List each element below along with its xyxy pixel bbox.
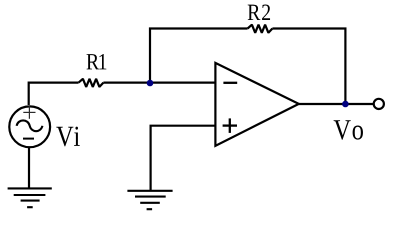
resistor R1 <box>79 79 104 87</box>
node junction at inverting input <box>147 80 154 87</box>
label R1 glyph R <box>87 54 100 69</box>
wire input left segment <box>29 83 79 105</box>
node junction at output <box>342 101 349 108</box>
wire non-inverting input <box>151 126 216 191</box>
op-amp non-inverting input plus label <box>223 118 237 132</box>
wire source to ground <box>28 147 30 188</box>
label R2 glyph R <box>248 5 261 20</box>
voltage source sine wave <box>17 120 43 131</box>
label R1 glyph 1 <box>99 54 106 69</box>
wire feedback top right segment <box>272 29 345 105</box>
voltage source plus sign <box>23 106 35 119</box>
ground left <box>8 188 52 207</box>
voltage source Vi circle <box>9 106 50 147</box>
wire feedback top left segment <box>150 29 248 84</box>
label Vo glyph V <box>334 120 351 140</box>
terminal open circle Vo <box>374 99 384 109</box>
label R2 glyph 2 <box>262 5 270 20</box>
label Vo glyph o <box>353 126 363 140</box>
label Vi glyph V <box>56 127 73 147</box>
voltage source minus sign <box>23 138 34 140</box>
wire output <box>299 103 374 105</box>
op-amp U1 triangle <box>215 63 298 146</box>
label Vi glyph i <box>74 127 80 146</box>
wire input right segment <box>103 81 215 83</box>
op-amp inverting input minus label <box>223 82 237 84</box>
ground middle <box>127 191 172 209</box>
resistor R2 <box>248 25 273 33</box>
